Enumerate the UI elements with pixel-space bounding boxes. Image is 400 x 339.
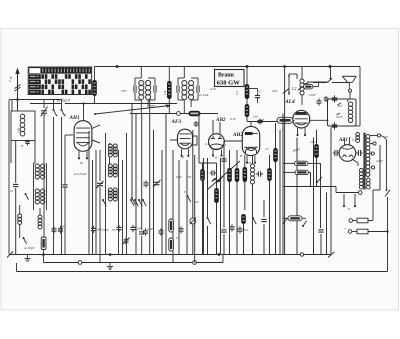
svg-text:M: M <box>180 155 184 159</box>
svg-text:2W: 2W <box>187 175 192 179</box>
svg-text:10nF: 10nF <box>309 93 316 97</box>
svg-text:0.1: 0.1 <box>222 143 226 147</box>
svg-text:30nF: 30nF <box>60 225 67 229</box>
svg-text:AH1: AH1 <box>69 115 80 121</box>
svg-text:m.W: m.W <box>210 87 216 91</box>
svg-text:AF3: AF3 <box>171 119 182 125</box>
svg-text:50: 50 <box>112 228 116 232</box>
svg-text:1n: 1n <box>10 189 14 193</box>
svg-text:10pF: 10pF <box>102 228 109 232</box>
svg-text:0.1F: 0.1F <box>230 117 237 121</box>
svg-text:1M: 1M <box>163 90 167 95</box>
svg-text:AH2: AH2 <box>232 132 243 138</box>
svg-text:ca.50pF: ca.50pF <box>24 246 35 250</box>
svg-text:m.W: m.W <box>176 175 182 179</box>
svg-text:2: 2 <box>56 113 58 117</box>
svg-text:zum Fad.: zum Fad. <box>73 172 87 176</box>
svg-text:zu Tast.4: zu Tast.4 <box>56 99 70 103</box>
svg-text:B: B <box>240 154 242 158</box>
svg-text:638 GW: 638 GW <box>217 79 241 86</box>
svg-text:10nF: 10nF <box>336 115 343 119</box>
svg-text:L2: L2 <box>291 86 296 91</box>
svg-text:zu Fad.: zu Fad. <box>198 93 209 97</box>
svg-text:M: M <box>79 161 83 165</box>
svg-text:3: 3 <box>64 113 66 117</box>
svg-text:8nF: 8nF <box>244 228 249 232</box>
svg-text:0.3: 0.3 <box>235 91 239 95</box>
svg-text:100: 100 <box>137 227 142 231</box>
svg-text:0.1: 0.1 <box>205 142 209 146</box>
svg-text:AB2: AB2 <box>215 117 226 123</box>
svg-text:M: M <box>214 156 218 160</box>
svg-text:AZ1: AZ1 <box>338 138 348 143</box>
svg-text:Braun: Braun <box>218 72 235 78</box>
svg-text:AL4: AL4 <box>284 99 295 105</box>
svg-text:200: 200 <box>17 128 21 133</box>
